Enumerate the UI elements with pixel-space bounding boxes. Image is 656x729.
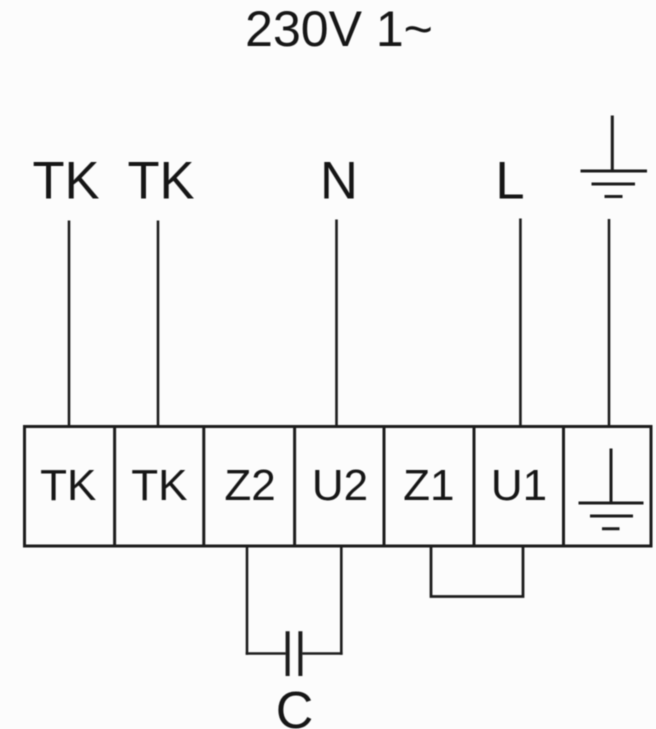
divider TK|Z2 <box>202 427 205 547</box>
wire U2 down to capacitor <box>340 546 343 655</box>
svg-text:N: N <box>320 152 358 211</box>
wire N to terminal U2 <box>335 220 338 428</box>
jumper wire Z1 to U1 <box>431 546 523 597</box>
capacitor C plates <box>288 631 301 676</box>
terminal block outline <box>25 427 652 547</box>
svg-text:TK: TK <box>131 461 187 510</box>
wire capacitor right lead <box>302 652 342 655</box>
wire capacitor left lead <box>246 652 286 655</box>
svg-text:TK: TK <box>40 461 96 510</box>
svg-text:U2: U2 <box>312 461 368 510</box>
wire L to terminal U1 <box>519 219 522 428</box>
svg-text:TK: TK <box>32 152 99 211</box>
svg-text:L: L <box>495 152 524 211</box>
wire TK2 to terminal <box>157 221 160 428</box>
divider Z2|U2 <box>293 427 296 547</box>
ground top PE <box>581 116 648 197</box>
svg-text:C: C <box>276 682 314 729</box>
wire earth to terminal PE <box>608 219 611 427</box>
svg-text:Z2: Z2 <box>224 461 275 510</box>
wire TK1 to terminal <box>68 221 71 428</box>
divider Z1|U1 <box>473 427 476 547</box>
svg-text:U1: U1 <box>491 461 547 510</box>
divider U2|Z1 <box>383 427 386 547</box>
divider TK|TK <box>113 427 116 547</box>
svg-text:TK: TK <box>127 152 194 211</box>
svg-text:Z1: Z1 <box>403 461 454 510</box>
ground bottom PE in terminal <box>579 449 644 529</box>
svg-text:230V 1~: 230V 1~ <box>245 1 433 57</box>
divider U1|PE <box>562 427 565 547</box>
wire Z2 down to capacitor <box>246 546 249 655</box>
